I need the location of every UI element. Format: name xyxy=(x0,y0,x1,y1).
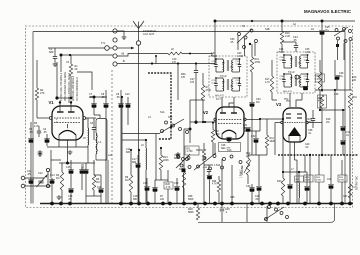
tube V1 cathode leads xyxy=(59,140,76,163)
junction on ground bus xyxy=(161,202,165,206)
value label xyxy=(237,52,244,58)
switch S2 xyxy=(176,154,191,204)
label output margin xyxy=(357,175,359,190)
svg-text:1M: 1M xyxy=(243,127,246,130)
chassis dashed border xyxy=(26,26,353,208)
value label xyxy=(230,196,235,199)
tube V1 plates xyxy=(57,111,75,113)
node top rail 3 xyxy=(321,20,324,23)
svg-text:5-304: 5-304 xyxy=(211,55,218,58)
tube V1 label xyxy=(49,100,55,105)
svg-text:4.7K: 4.7K xyxy=(34,125,39,128)
svg-text:47K: 47K xyxy=(181,76,186,79)
svg-text:470K: 470K xyxy=(255,61,261,64)
wire phono bottom xyxy=(25,185,51,187)
wire bus96 left xyxy=(88,89,90,91)
value label xyxy=(68,195,73,201)
svg-text:40+: 40+ xyxy=(325,29,330,32)
tube V3 envelope xyxy=(283,108,306,142)
label C3 xyxy=(66,61,70,64)
capacitor C27 xyxy=(190,64,198,124)
antenna lead down xyxy=(138,45,140,203)
wire vol bottom xyxy=(248,154,267,156)
coil L4 loop xyxy=(96,119,107,161)
svg-text:ANT.COIL.PRI.WDG.3: ANT.COIL.PRI.WDG.3 xyxy=(72,75,75,101)
wire vertical b xyxy=(177,64,179,101)
capacitor C24 xyxy=(293,36,298,52)
junction on ground bus xyxy=(250,202,254,206)
wire switch feeds xyxy=(122,134,160,141)
svg-text:47K: 47K xyxy=(318,101,323,103)
svg-text:C19: C19 xyxy=(174,182,179,185)
wire V2 out xyxy=(244,119,260,131)
junction dot xyxy=(160,147,162,149)
svg-text:.05: .05 xyxy=(101,96,105,99)
svg-text:.05: .05 xyxy=(27,173,31,176)
capacitor C40 xyxy=(340,110,350,155)
junction dot xyxy=(170,126,172,128)
svg-text:+B: +B xyxy=(121,52,125,56)
resistor R14 xyxy=(265,119,275,155)
ground cathode xyxy=(57,150,73,200)
svg-text:MAGNAVOX ILECTRIC: MAGNAVOX ILECTRIC xyxy=(304,9,352,14)
value label xyxy=(216,98,221,101)
value label xyxy=(291,168,294,171)
capacitor C19 xyxy=(174,178,180,204)
tube V3 triangle xyxy=(288,127,301,136)
svg-text:R30: R30 xyxy=(212,181,217,183)
svg-text:V1: V1 xyxy=(49,100,55,105)
wire T.S. line xyxy=(48,47,113,49)
label rf winding xyxy=(76,77,79,101)
junction on ground bus xyxy=(329,202,333,206)
svg-text:T.S.: T.S. xyxy=(101,41,106,45)
wire right rail 110 xyxy=(320,109,345,111)
capacitor C9 xyxy=(116,90,124,204)
svg-text:.05: .05 xyxy=(293,39,297,42)
svg-text:4.7K: 4.7K xyxy=(166,186,171,189)
svg-text:T2 L9: T2 L9 xyxy=(220,75,227,78)
tube V1 plate leads xyxy=(59,101,72,113)
wire row 163 xyxy=(59,162,95,165)
tube V3 leads xyxy=(289,136,300,160)
resistor R7 470K xyxy=(201,73,211,123)
svg-text:680: 680 xyxy=(133,198,138,201)
resistor R9 1M xyxy=(125,150,133,204)
value label xyxy=(148,116,151,119)
capacitor C4 xyxy=(43,128,50,146)
svg-text:1M: 1M xyxy=(125,179,128,182)
svg-text:470K: 470K xyxy=(206,89,212,92)
node top rail 1 xyxy=(214,20,217,23)
wire from lug 1 xyxy=(117,31,124,35)
capacitor C18 xyxy=(143,178,150,204)
svg-text:470K: 470K xyxy=(339,180,345,182)
trimmer C13 xyxy=(46,168,49,187)
resistor R10 xyxy=(179,160,186,204)
svg-text:5-30: 5-30 xyxy=(212,83,217,85)
svg-text:470: 470 xyxy=(190,81,195,84)
svg-text:.05: .05 xyxy=(116,96,120,99)
svg-text:SEL-777: SEL-777 xyxy=(221,147,231,150)
junction on ground bus xyxy=(182,202,186,206)
svg-text:-B: -B xyxy=(122,59,125,63)
junction dot xyxy=(319,109,321,111)
capacitor C7 xyxy=(89,93,100,118)
value label xyxy=(126,148,131,154)
wire phono top xyxy=(25,177,44,179)
capacitor C44 xyxy=(348,155,356,204)
value label xyxy=(133,195,138,201)
capacitor C17 680 xyxy=(132,155,141,204)
ground at lug 1 xyxy=(122,35,127,40)
node junction xyxy=(60,54,63,57)
svg-text:460K: 460K xyxy=(270,140,276,143)
tube V1 envelope xyxy=(52,106,83,140)
wire mid vertical 2 xyxy=(138,150,140,204)
svg-text:680: 680 xyxy=(49,50,54,54)
label osc coil winding xyxy=(60,72,63,101)
wire S4 drops xyxy=(238,35,255,56)
svg-text:C32: C32 xyxy=(251,135,256,138)
svg-text:1A: 1A xyxy=(293,23,296,26)
wire gang vertical xyxy=(50,150,52,178)
node top rail 2 xyxy=(281,20,284,23)
value label xyxy=(279,48,284,54)
svg-text:270: 270 xyxy=(40,91,45,95)
title text MAGNAVOX ELECTRIC xyxy=(304,9,352,14)
capacitor C10 xyxy=(125,93,131,125)
capacitor C11 xyxy=(27,170,34,184)
wire V3 right xyxy=(308,122,322,124)
value label xyxy=(255,195,260,201)
wire avc long xyxy=(260,118,283,120)
switch S6 xyxy=(262,204,289,221)
svg-text:V2: V2 xyxy=(203,110,209,115)
svg-text:1-30: 1-30 xyxy=(304,79,309,81)
svg-text:10.7: 10.7 xyxy=(216,98,221,101)
wire 335 long xyxy=(334,90,336,155)
capacitor C2 xyxy=(28,122,34,204)
inner border right xyxy=(344,32,346,204)
junction on ground bus xyxy=(230,202,234,206)
label 6AT6 xyxy=(308,118,313,124)
svg-text:S1A: S1A xyxy=(160,111,165,114)
switch S4 xyxy=(237,25,258,49)
value label xyxy=(246,152,251,158)
capacitor C6 xyxy=(90,118,96,140)
value label xyxy=(230,38,235,44)
junction dot xyxy=(130,149,132,151)
box label R25 xyxy=(315,155,324,204)
box label R23A xyxy=(304,175,313,182)
coil L4 xyxy=(96,133,102,154)
capacitor C43 xyxy=(327,155,334,204)
svg-text:R19: R19 xyxy=(353,97,358,99)
svg-text:OSCILLATOR.COIL.SEC.2: OSCILLATOR.COIL.SEC.2 xyxy=(68,72,71,103)
resistor R8 47K xyxy=(202,143,205,204)
diode detector xyxy=(295,75,299,79)
value label xyxy=(352,76,357,82)
label box R11 xyxy=(185,146,199,155)
tube V2 cathode xyxy=(222,130,236,139)
value label xyxy=(160,111,165,114)
value label xyxy=(188,195,194,201)
resistor R16 xyxy=(280,21,290,52)
junction dot xyxy=(251,20,253,22)
value label xyxy=(172,58,177,64)
junction dot xyxy=(60,54,62,56)
wire T3 to V3 xyxy=(290,93,302,107)
svg-text:A.M. ANT.: A.M. ANT. xyxy=(143,32,155,36)
svg-text:C12: C12 xyxy=(38,172,43,175)
box label R20 xyxy=(164,170,173,204)
wire cathode row xyxy=(47,146,88,148)
ground below C4 xyxy=(38,150,43,155)
wire right verticals xyxy=(309,154,323,204)
junction on ground bus xyxy=(50,202,54,206)
wire 297 drop xyxy=(295,160,298,204)
svg-text:R14: R14 xyxy=(318,98,323,100)
svg-text:C45: C45 xyxy=(230,196,235,199)
svg-text:.05: .05 xyxy=(89,96,93,99)
inner border left xyxy=(32,32,34,204)
svg-text:100: 100 xyxy=(160,198,165,201)
IF transformer T3 xyxy=(277,52,315,93)
terminal strip lug xyxy=(113,38,117,42)
svg-text:560K: 560K xyxy=(188,198,194,201)
junction dot xyxy=(195,62,197,64)
svg-text:2.2K: 2.2K xyxy=(285,35,290,38)
svg-text:C39: C39 xyxy=(334,93,339,96)
wire v2 left lead xyxy=(184,122,216,160)
svg-text:1-304: 1-304 xyxy=(237,55,244,58)
wire T3 bottom tap xyxy=(272,100,291,103)
junction dot xyxy=(145,139,147,141)
svg-text:OSC.PADDER.SEC.WDG: OSC.PADDER.SEC.WDG xyxy=(64,72,67,101)
svg-text:OUTPUT-56C: OUTPUT-56C xyxy=(357,175,359,190)
svg-text:1.5A4: 1.5A4 xyxy=(214,164,221,167)
wire t2 left lead xyxy=(208,62,210,64)
junction on ground bus xyxy=(340,202,344,206)
svg-text:1M: 1M xyxy=(56,177,59,180)
svg-text:220K: 220K xyxy=(163,159,169,162)
resistor R28 560K xyxy=(188,204,200,221)
svg-text:C.OSC.COIL.PRI.WDG.1: C.OSC.COIL.PRI.WDG.1 xyxy=(60,72,63,101)
capacitor C25 xyxy=(319,21,330,60)
capacitor C33 xyxy=(246,184,255,204)
coil L5 xyxy=(83,118,89,163)
tube V1 grid lead left xyxy=(37,117,49,119)
wire gang xyxy=(51,159,61,161)
terminal strip lug xyxy=(113,62,117,66)
tube V2 envelope xyxy=(216,107,244,139)
junction dot xyxy=(204,121,206,123)
svg-text:T3 L9: T3 L9 xyxy=(288,71,295,74)
output shield xyxy=(278,154,358,156)
junction on ground bus xyxy=(303,202,307,206)
junction on ground bus xyxy=(268,202,272,206)
value label xyxy=(214,164,221,167)
svg-text:S1B: S1B xyxy=(168,117,173,119)
wire T2 to V2 xyxy=(222,97,234,107)
wire row 150 xyxy=(196,149,204,151)
junction on ground bus xyxy=(276,202,280,206)
box label R26 xyxy=(338,160,347,204)
wire under shield 1 xyxy=(282,119,284,178)
terminal strip lug xyxy=(113,46,117,50)
volume control R12 xyxy=(242,155,251,184)
wire under V2 xyxy=(189,122,192,143)
svg-text:C15: C15 xyxy=(66,166,71,169)
label external antenna xyxy=(143,29,157,36)
value label xyxy=(293,23,296,26)
capacitor C28 label box xyxy=(219,143,241,152)
svg-text:R23: R23 xyxy=(277,180,282,183)
tube V1 cathode xyxy=(59,124,76,140)
svg-text:C47: C47 xyxy=(343,195,348,198)
resistor R17 xyxy=(265,60,274,100)
value label xyxy=(265,28,270,31)
svg-text:47K: 47K xyxy=(317,78,322,81)
IF transformer T2 xyxy=(209,56,247,97)
wire 290 drop xyxy=(287,142,293,204)
capacitor C16 xyxy=(97,175,104,204)
variable capacitor C12 xyxy=(37,172,48,187)
resistor R8A 47K xyxy=(211,121,220,155)
junction on ground bus xyxy=(213,202,217,206)
junction dot xyxy=(195,121,197,123)
capacitor C37A xyxy=(303,86,309,90)
wire avc row xyxy=(89,96,107,99)
wire mid vertical 1 xyxy=(121,97,123,204)
coil L6 xyxy=(141,140,146,204)
wire mid rail xyxy=(190,99,205,101)
tube V2 plates xyxy=(220,103,237,113)
svg-text:.05: .05 xyxy=(43,131,47,134)
capacitor C14 xyxy=(49,174,55,204)
svg-text:4-700: 4-700 xyxy=(187,151,194,153)
svg-text:2K: 2K xyxy=(75,68,78,71)
antenna terminal xyxy=(136,41,140,45)
capacitor C31 xyxy=(243,124,251,155)
svg-text:C16: C16 xyxy=(97,186,102,189)
junction on ground bus xyxy=(286,202,290,206)
capacitor C48 xyxy=(203,165,213,204)
capacitor C38 xyxy=(308,110,315,135)
tube V2 below xyxy=(226,137,232,143)
svg-text:C43: C43 xyxy=(327,179,332,181)
junction on ground bus xyxy=(59,202,63,206)
wire T2 feed xyxy=(214,21,216,56)
capacitor C20 680 xyxy=(174,154,179,160)
svg-text:4.7K: 4.7K xyxy=(212,184,217,186)
ground below C1 xyxy=(53,62,58,67)
svg-text:C33: C33 xyxy=(246,185,251,188)
wire B+ top rail xyxy=(215,20,355,22)
junction dot xyxy=(282,171,284,173)
switch S3 xyxy=(177,149,242,170)
terminal strip lug xyxy=(113,29,117,33)
tube V2 grid xyxy=(214,118,246,121)
junction on ground bus xyxy=(68,202,72,206)
wire row 160 xyxy=(96,160,108,204)
wire 259 drop xyxy=(256,155,262,204)
junction dot xyxy=(151,62,153,64)
svg-text:VOLUME: VOLUME xyxy=(242,165,244,175)
svg-text:SEL-D77: SEL-D77 xyxy=(215,95,225,97)
wire C24 tap xyxy=(282,41,296,43)
junction dot xyxy=(177,62,179,64)
value label xyxy=(334,93,339,96)
junction dot xyxy=(298,171,300,173)
svg-text:5-30: 5-30 xyxy=(212,64,217,66)
coil L7 xyxy=(295,172,304,204)
junction dot xyxy=(282,118,284,120)
volume label xyxy=(240,169,243,178)
tube V1 grid xyxy=(49,117,85,120)
value label xyxy=(343,195,348,198)
svg-text:470: 470 xyxy=(172,61,177,64)
junction dot xyxy=(138,149,140,151)
junction on ground bus xyxy=(220,202,224,206)
resistor R23 xyxy=(277,178,285,204)
junction dot xyxy=(342,109,344,111)
svg-text:V3: V3 xyxy=(276,102,282,107)
band switch S1 xyxy=(160,117,197,134)
junction on ground bus xyxy=(348,202,352,206)
value label xyxy=(108,154,113,157)
junction dot xyxy=(259,118,261,120)
svg-text:40+: 40+ xyxy=(339,75,344,78)
value label xyxy=(284,98,289,101)
wire right rail 90 xyxy=(315,89,352,91)
svg-text:470K: 470K xyxy=(316,180,322,182)
svg-text:C18: C18 xyxy=(143,182,148,185)
svg-text:270K: 270K xyxy=(296,182,302,184)
value label xyxy=(305,48,310,54)
svg-text:1-30: 1-30 xyxy=(305,51,310,54)
capacitor C45 xyxy=(220,204,230,223)
wire coil rail xyxy=(55,62,72,100)
inner border top xyxy=(33,31,345,33)
resistor R15 xyxy=(316,60,325,110)
value label xyxy=(56,118,58,124)
resistor R5 xyxy=(79,163,89,204)
value label xyxy=(326,118,331,124)
value label xyxy=(305,143,310,149)
arrow at lug 3 xyxy=(117,47,134,50)
antenna xyxy=(133,21,144,41)
ground mid xyxy=(176,152,181,157)
svg-text:5-30: 5-30 xyxy=(280,79,285,81)
label ant winding xyxy=(72,75,75,101)
value label xyxy=(311,28,314,31)
resistor R6 xyxy=(92,160,100,196)
junction dot xyxy=(93,96,95,98)
wire S5 drops xyxy=(338,41,351,61)
resistor R24 270K xyxy=(283,155,307,172)
phono terminal 2 xyxy=(21,184,25,188)
tube V3 plates xyxy=(286,114,302,118)
resistor R19 xyxy=(348,60,357,204)
wire below bus far right xyxy=(0,0,1,1)
svg-text:2A: 2A xyxy=(311,28,314,31)
svg-text:4.7K: 4.7K xyxy=(265,81,270,84)
svg-text:C10: C10 xyxy=(125,93,130,96)
wire osc right xyxy=(189,100,191,122)
wire -B lug xyxy=(117,59,215,64)
